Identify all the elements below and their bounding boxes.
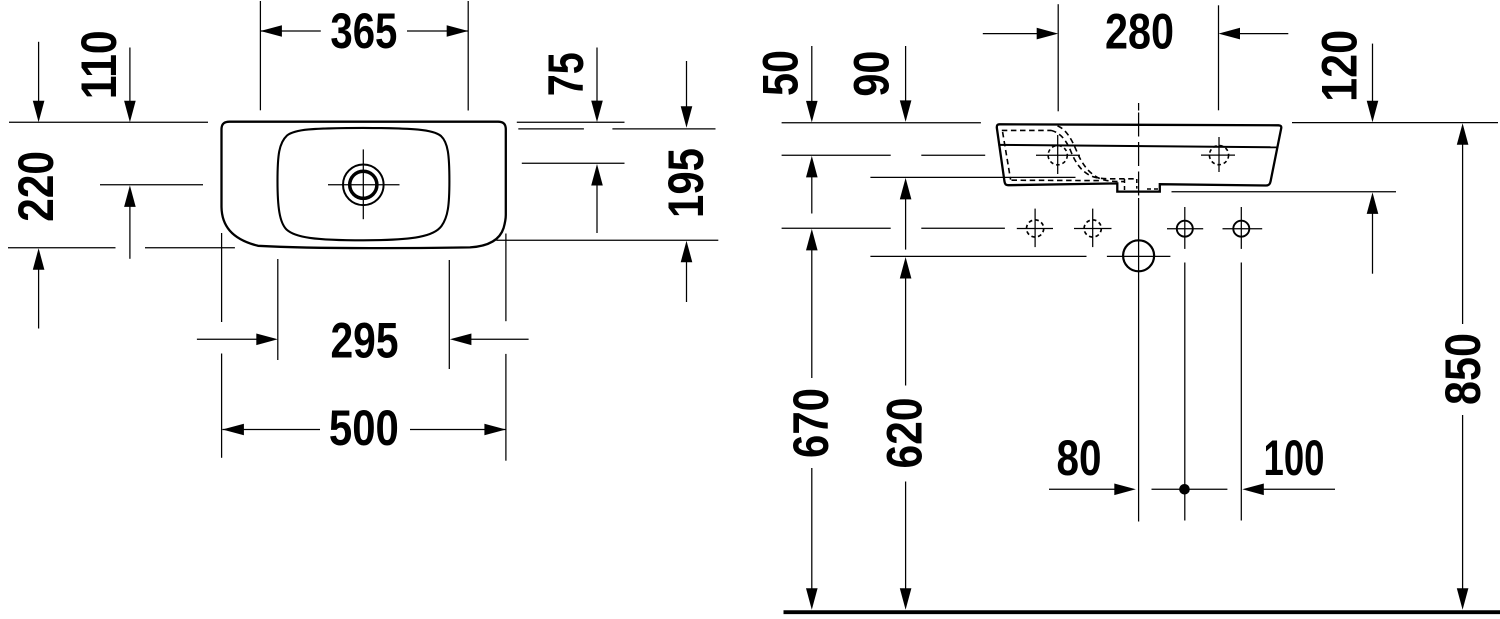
svg-text:220: 220 [8, 151, 64, 222]
svg-text:500: 500 [329, 400, 399, 456]
svg-text:110: 110 [71, 30, 127, 99]
svg-text:120: 120 [1311, 30, 1367, 102]
svg-text:195: 195 [658, 148, 714, 218]
svg-text:365: 365 [330, 3, 397, 59]
svg-text:670: 670 [783, 388, 839, 458]
svg-text:280: 280 [1105, 4, 1174, 60]
svg-text:80: 80 [1057, 430, 1102, 486]
svg-text:620: 620 [877, 398, 933, 469]
svg-text:90: 90 [844, 51, 900, 97]
svg-text:75: 75 [538, 52, 594, 96]
svg-text:50: 50 [753, 50, 809, 96]
svg-text:850: 850 [1435, 333, 1491, 405]
svg-text:100: 100 [1264, 430, 1325, 486]
svg-text:295: 295 [331, 313, 399, 369]
